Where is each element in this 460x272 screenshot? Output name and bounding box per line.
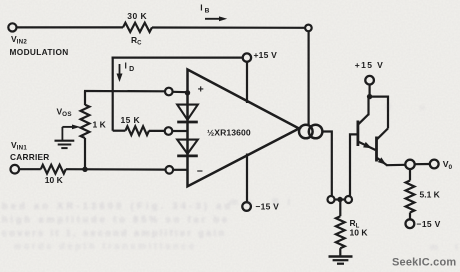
wire opamp V- pin to -15V xyxy=(246,154,248,203)
wire junction to RL xyxy=(339,201,341,216)
terminal -15V buffer load xyxy=(406,219,415,228)
wire noninverting pin to opamp xyxy=(173,91,188,94)
node pot-carrier junction xyxy=(82,167,87,172)
terminal +15V supply xyxy=(243,53,251,61)
label IB xyxy=(200,2,209,14)
diode D1 xyxy=(177,105,198,122)
arrow ID current direction xyxy=(117,64,123,82)
arrow IB current direction xyxy=(205,16,227,21)
wire current source to output pin xyxy=(322,132,331,197)
wire diode-bias pin to opamp xyxy=(172,130,187,132)
resistor 5.1K xyxy=(406,181,415,213)
label half XR13600 xyxy=(207,128,251,138)
wire VIN1 to 10K xyxy=(19,168,41,170)
ground VOS xyxy=(55,141,75,148)
terminal VIN2 xyxy=(8,23,16,31)
label 15 K xyxy=(121,115,141,125)
pin buffer input xyxy=(345,196,352,203)
current source output symbol xyxy=(299,125,322,139)
pin inverting input xyxy=(166,166,174,174)
terminal VIN1 xyxy=(11,165,20,174)
label +15 V buffer xyxy=(355,60,384,70)
watermark SeekIC.com xyxy=(392,257,456,269)
label -15 V supply xyxy=(256,202,280,212)
wire pot row to noninverting input xyxy=(84,90,165,93)
pin OTA output xyxy=(328,196,335,203)
wire ID corner to 15K xyxy=(113,130,126,132)
label RC xyxy=(131,35,142,47)
label CARRIER xyxy=(10,152,50,162)
wire 5.1K to -15V xyxy=(409,213,411,220)
op-amp U1 half XR13600 xyxy=(188,70,300,187)
terminal V0 xyxy=(430,160,439,169)
wire ID corner to +15V terminal xyxy=(112,56,243,58)
pin diode-bias input xyxy=(165,127,173,135)
wire buffer input up xyxy=(349,134,357,196)
resistor 10K carrier xyxy=(41,165,66,174)
label 1 K xyxy=(93,120,107,130)
transistor Q1 xyxy=(358,97,376,151)
resistor 15K xyxy=(125,126,149,135)
wire Q2 emitter to output pin xyxy=(387,164,406,167)
label 10 K xyxy=(45,175,64,185)
label RL xyxy=(350,218,360,230)
wire +15V to collector node xyxy=(369,85,371,98)
potentiometer 1K VOS xyxy=(81,105,90,138)
node output junction xyxy=(335,197,346,202)
resistor RC 30K xyxy=(123,23,152,32)
wire ID vertical branch xyxy=(112,57,114,131)
transistor Q2 xyxy=(377,128,389,167)
wire inverting pin to opamp xyxy=(173,169,187,171)
label VIN2 xyxy=(11,34,27,46)
node diode chain top xyxy=(185,90,190,95)
label plus input xyxy=(198,83,204,95)
label +15 V supply xyxy=(254,50,278,60)
label VOS xyxy=(57,107,72,119)
resistor RL 10K xyxy=(336,216,345,248)
ground RL xyxy=(329,257,353,264)
label ID xyxy=(125,61,135,73)
label MODULATION xyxy=(10,47,69,57)
diode D2 xyxy=(177,140,198,156)
wire +15V to opamp V+ pin xyxy=(246,62,248,103)
pin buffer output xyxy=(405,160,414,169)
terminal -15V supply xyxy=(242,202,251,211)
bleed-through artifacts xyxy=(2,102,458,252)
wire output pin to 5.1K xyxy=(409,169,411,181)
wire RC to bias pin xyxy=(152,26,305,28)
wire buffer output to V0 terminal xyxy=(414,163,429,165)
label RL 10 K xyxy=(350,228,369,238)
terminal +15V buffer xyxy=(365,76,374,85)
pin amp-bias input xyxy=(305,25,312,32)
label 30 K xyxy=(127,11,147,21)
wire VIN2 to RC xyxy=(17,26,123,28)
node collector junction xyxy=(367,94,372,99)
wire wiper to ground xyxy=(61,127,63,141)
label minus input xyxy=(197,166,203,178)
label VIN1 xyxy=(11,140,27,152)
wire 10K to inverting input xyxy=(66,168,165,171)
wire junction up to pot xyxy=(84,138,86,169)
label 5.1 K xyxy=(420,190,441,200)
label -15 V buffer load xyxy=(417,219,441,229)
wire pot top to noninverting row xyxy=(84,91,86,105)
wire bias pin down to output current source xyxy=(308,31,310,125)
label V0 xyxy=(443,159,453,171)
wiper arrow of pot xyxy=(62,125,80,130)
pin noninverting input xyxy=(165,88,173,96)
wire RL to ground xyxy=(339,248,341,256)
wire 15K to diode-bias pin xyxy=(149,130,165,132)
wire node to Q2 collector xyxy=(370,97,388,129)
